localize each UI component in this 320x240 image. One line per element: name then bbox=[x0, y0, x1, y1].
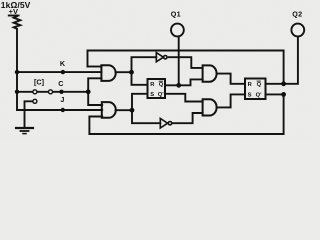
svg-text:Q: Q bbox=[257, 82, 262, 88]
svg-text:Q1: Q1 bbox=[171, 9, 181, 18]
svg-text:Q': Q' bbox=[158, 92, 165, 98]
svg-text:S: S bbox=[248, 92, 252, 98]
svg-text:S: S bbox=[150, 92, 154, 98]
svg-text:Q2: Q2 bbox=[292, 9, 302, 18]
svg-text:[C]: [C] bbox=[34, 78, 44, 87]
svg-text:J: J bbox=[60, 95, 64, 104]
svg-text:K: K bbox=[60, 59, 66, 68]
svg-text:Q: Q bbox=[159, 82, 164, 88]
svg-text:Q': Q' bbox=[256, 92, 263, 98]
svg-text:C: C bbox=[58, 79, 63, 88]
svg-text:+V: +V bbox=[9, 7, 18, 16]
